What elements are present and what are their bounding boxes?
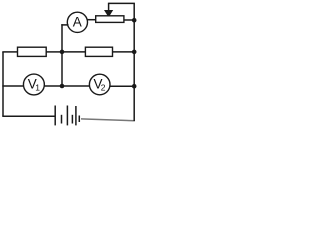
wire: R2 to right border — [113, 51, 135, 53]
wire: junction to R2 — [62, 51, 85, 53]
rheostat R3 box — [96, 16, 124, 23]
junction node V row — [60, 84, 65, 89]
wire: right border vertical — [133, 3, 135, 121]
junction node at R1-R2 — [60, 50, 65, 55]
junction dot V row right — [132, 84, 137, 89]
rheostat slider arrow stem — [108, 3, 110, 11]
svg-text:1: 1 — [35, 83, 40, 93]
ammeter U1 circle — [67, 12, 87, 32]
battery B1 short plate 2 — [71, 115, 73, 124]
wire: ammeter right lead to rheostat — [87, 19, 96, 21]
wire: R1 to center junction — [46, 51, 62, 53]
wire: ammeter left lead — [61, 24, 68, 26]
wire: middle row left border to R1 — [2, 51, 17, 53]
wire: rheostat to right border — [124, 19, 134, 21]
resistor R1 box — [18, 47, 47, 56]
battery B1 short plate 1 — [61, 115, 63, 124]
wire: bottom left horizontal to battery — [2, 115, 55, 117]
junction dot middle right — [132, 50, 137, 55]
battery B1 long plate 2 — [66, 106, 68, 126]
wire: left border vertical — [2, 52, 4, 116]
junction dot top right — [132, 18, 137, 23]
wire: V row left border to V1 — [2, 85, 23, 87]
wire: V2 to right border — [110, 85, 134, 87]
battery B1 long plate 1 — [54, 106, 56, 126]
wire: center vertical branch — [61, 24, 63, 86]
rheostat slider arrowhead — [104, 10, 113, 17]
wire: junction to V2 — [62, 85, 89, 87]
svg-text:2: 2 — [101, 83, 106, 93]
voltmeter V1 circle — [23, 74, 44, 95]
voltmeter V2 circle — [89, 74, 110, 95]
svg-text:A: A — [73, 14, 82, 29]
wire: V1 to center junction — [44, 85, 62, 87]
wire: bottom right gray horizontal from battery to right border — [81, 119, 135, 121]
battery B1 long plate 3 — [75, 106, 77, 125]
resistor R2 box — [85, 47, 112, 56]
wire: top loop horizontal — [109, 2, 135, 4]
battery B1 short plate 3 — [78, 116, 80, 123]
